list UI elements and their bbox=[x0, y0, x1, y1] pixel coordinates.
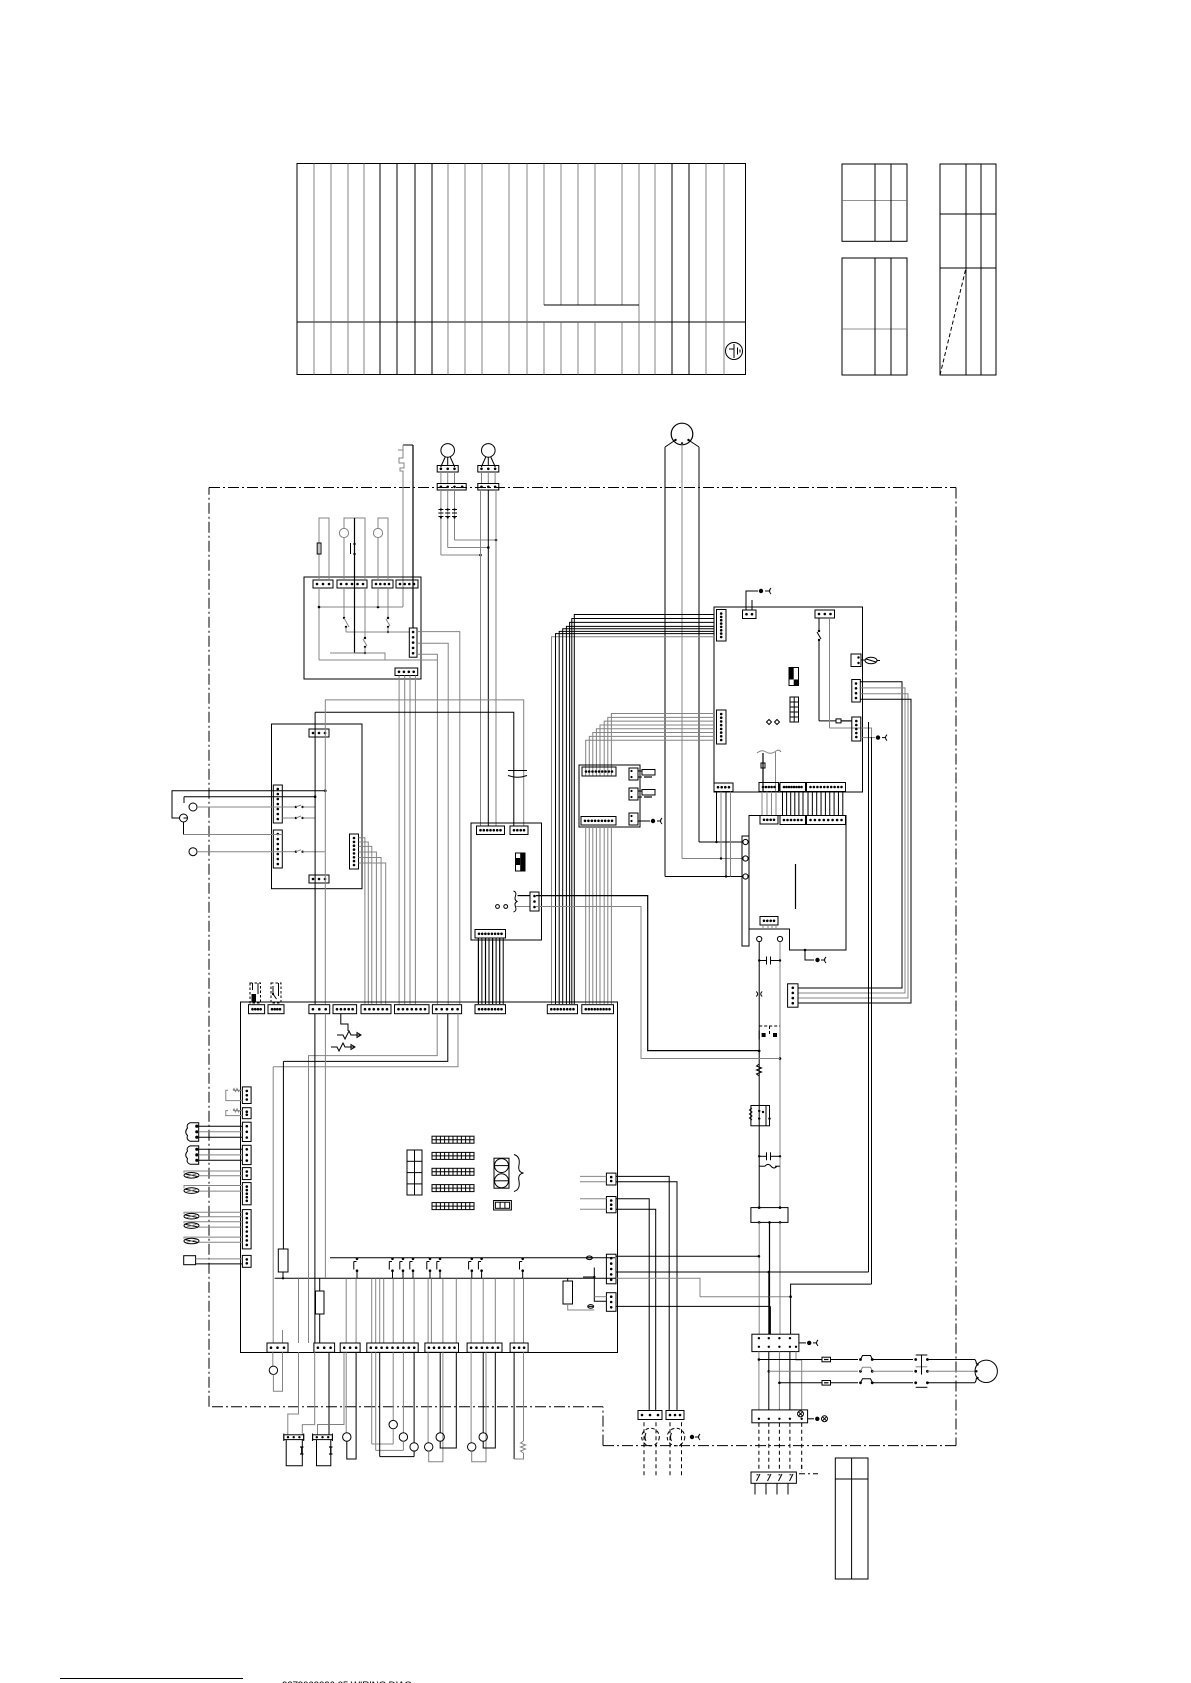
terminal box side connector bbox=[350, 834, 359, 869]
filter PCB connector CN-R3 bbox=[852, 717, 861, 741]
capacitor outline box bbox=[835, 1458, 868, 1579]
main PCB connector CN-S1 bbox=[267, 1343, 288, 1352]
main PCB connector CN-S3 bbox=[340, 1343, 360, 1352]
brace bbox=[514, 1155, 524, 1192]
pressure sensor 3 bbox=[184, 1237, 242, 1244]
internal vertical feeds on left bbox=[273, 1061, 283, 1343]
comm PCB side connector a bbox=[629, 768, 655, 780]
comm PCB side connector c bbox=[629, 813, 662, 825]
wire bus to fan PCB CN2 bbox=[315, 700, 524, 826]
power module connector PM3 bbox=[807, 816, 846, 825]
field terminal strip bbox=[751, 1472, 796, 1495]
main PCB connector CN-L1 bbox=[242, 1087, 251, 1104]
DIP switch block on filter PCB bbox=[789, 668, 799, 686]
terminal block TB2 bbox=[752, 1334, 799, 1351]
junction from fan PCB (gray) bbox=[779, 1057, 782, 1060]
filter PCB connector CN-L2 bbox=[717, 710, 727, 744]
relay connector CN-D bbox=[396, 580, 418, 588]
relay contact S2 bbox=[386, 588, 390, 633]
legend table column lines bbox=[314, 164, 724, 375]
terminal strip TM1 bbox=[273, 785, 282, 823]
defrost heater loop 2 bbox=[226, 1109, 243, 1116]
contactor feed wires bbox=[769, 1271, 872, 1335]
compressor terminal strip bbox=[742, 836, 749, 946]
field terminal L3 bbox=[189, 848, 197, 856]
legend table row divider bbox=[297, 321, 746, 323]
main PCB connector CN-S2 bbox=[314, 1343, 335, 1352]
terminal box connector bottom bbox=[309, 875, 329, 883]
comm PCB top connector bbox=[582, 767, 616, 776]
dashed option plug 2 bbox=[271, 983, 281, 1003]
main PCB connector CN-K2 bbox=[268, 1005, 284, 1014]
main PCB connector CN-L6 bbox=[242, 1183, 251, 1205]
main PCB connector CN-S5 bbox=[425, 1343, 459, 1352]
outdoor fan motor FM bbox=[975, 1360, 997, 1382]
CN-R2 wires to rectifier connector bbox=[798, 682, 911, 1003]
DC link wires bbox=[759, 942, 780, 1208]
small 3-cell block bbox=[494, 1201, 512, 1211]
inline connector on DC+ bbox=[756, 992, 762, 997]
TB2 earth tap bbox=[799, 1340, 818, 1346]
relay unit box bbox=[304, 577, 421, 679]
TB2 to TB3 wires bbox=[759, 1352, 802, 1410]
valve thermistor pair wiring bbox=[288, 1352, 344, 1435]
terminal box internal wires to bus bbox=[282, 789, 326, 853]
DC bus terminal - bbox=[777, 936, 782, 941]
CN-T1 pigtail bbox=[746, 588, 771, 610]
discharge thermistor bbox=[269, 1352, 282, 1391]
wires CN-E to main PCB CN7 bbox=[413, 580, 460, 1004]
dashed option plug 1 bbox=[250, 983, 261, 1003]
inline connector symbols on buses bbox=[586, 1256, 593, 1308]
TB3 earth tap bbox=[808, 1416, 828, 1422]
base heater bbox=[184, 1256, 243, 1265]
dashed relay contact on DC link bbox=[759, 1026, 780, 1040]
wires into CN-L2 from comm PCB bbox=[586, 714, 714, 777]
filter PCB outline bbox=[714, 607, 863, 792]
lamp connector LC2 bbox=[666, 1411, 684, 1420]
relay box bottom connector CN-F bbox=[395, 668, 418, 676]
field terminal L1 bbox=[189, 803, 197, 811]
main control PCB outline bbox=[241, 1002, 618, 1353]
fan motor supply line 1 bbox=[758, 1355, 977, 1364]
lamp connector LC1 bbox=[638, 1411, 662, 1420]
wires CN-F to main PCB CN6 bbox=[399, 676, 415, 1005]
filter PCB connector CN-B3 bbox=[780, 783, 806, 792]
fan PCB wires to main PCB CN8 bbox=[478, 938, 503, 1004]
CN-R3 tap bbox=[861, 735, 887, 741]
main PCB connector CN-L2 bbox=[242, 1108, 251, 1119]
output relay contacts bbox=[354, 1258, 524, 1279]
solenoid valve coil SV1 bbox=[437, 444, 466, 490]
power module earth tap bbox=[804, 949, 826, 963]
title block table C bbox=[940, 164, 996, 375]
comm PCB bottom connector bbox=[581, 817, 616, 826]
main power wires down right side bbox=[869, 722, 872, 1284]
lamp earth tap bbox=[690, 1434, 700, 1440]
boundary stub near terminal strip bbox=[799, 1473, 818, 1475]
filter PCB connector CN-R2 bbox=[852, 680, 861, 703]
strain relief squiggle bbox=[757, 750, 781, 792]
relay box side connector CN-E bbox=[409, 628, 417, 657]
dropper resistor R2 bbox=[316, 1278, 325, 1343]
fan PCB connector CN1 bbox=[477, 826, 505, 835]
relay connector CN-A bbox=[313, 580, 333, 588]
field terminal L2 bbox=[180, 814, 188, 822]
fan PCB test pads bbox=[496, 905, 508, 909]
sensor wire risers bbox=[299, 1278, 524, 1343]
relay loop wires above box bbox=[317, 518, 388, 580]
PM4 wires to DC terminals bbox=[763, 925, 776, 929]
relay array bar 5 bbox=[432, 1203, 474, 1210]
filter PCB connector CN-B1 bbox=[714, 783, 733, 792]
terminal grid block bbox=[407, 1150, 422, 1195]
pressure switch 1 bbox=[184, 1171, 242, 1178]
4-way valve plug 2 bbox=[186, 1146, 243, 1164]
filter PCB connector CN-T2 bbox=[815, 610, 835, 618]
power module connector PM4 bbox=[760, 917, 778, 926]
contactor link bar bbox=[921, 1355, 923, 1375]
fuse wire inside filter PCB bbox=[817, 618, 852, 723]
relay coils K1 K2 bbox=[494, 1158, 509, 1188]
power module connector PM2 bbox=[780, 816, 806, 825]
main PCB connector CN-S4 bbox=[367, 1343, 418, 1352]
contact on black relay wire bbox=[351, 543, 356, 555]
reactor symbol bbox=[759, 1164, 780, 1168]
power module outline bbox=[749, 816, 846, 951]
pressure switch block 1 bbox=[284, 1434, 304, 1466]
main PCB connector CN-S6 bbox=[467, 1343, 502, 1352]
main PCB connector CN-L8 bbox=[242, 1255, 251, 1267]
fan PCB output wires bbox=[536, 896, 780, 1059]
main PCB connector CN-L5 bbox=[242, 1168, 251, 1180]
comm PCB side connector b bbox=[629, 788, 655, 800]
pressure sensor 2 bbox=[184, 1222, 242, 1229]
main PCB connector CN-K3 bbox=[309, 1005, 330, 1014]
main PCB connector CN-R3 bbox=[606, 1254, 616, 1284]
solenoid valve coil SV2 bbox=[478, 444, 499, 490]
fan PCB connector CN3 bbox=[530, 892, 539, 911]
title block table A bbox=[842, 164, 907, 241]
communication PCB outline bbox=[579, 765, 640, 827]
fan PCB connector CN2 bbox=[510, 826, 528, 835]
internal sensor bus verticals bbox=[315, 1014, 326, 1343]
pressure switch 2 bbox=[184, 1186, 242, 1194]
relay box buses bbox=[319, 580, 437, 660]
varistor connector on right edge bbox=[851, 654, 880, 667]
internal link to CN-R4 bbox=[583, 1268, 606, 1302]
wires CN-R4 bbox=[594, 1295, 792, 1334]
wires CN-R3 to contactor chain bbox=[616, 1255, 869, 1297]
wires into CN-L1 from main PCB CN9 bus bbox=[552, 615, 715, 1005]
terminal box field wiring bbox=[172, 791, 282, 852]
footer rule bbox=[60, 1678, 243, 1680]
main PCB connector CN-R4 bbox=[606, 1293, 616, 1312]
relay array bar 4 bbox=[432, 1185, 474, 1192]
main PCB connector CN-L4 bbox=[242, 1145, 251, 1164]
relay contact S3 bbox=[363, 588, 367, 654]
main PCB connector CN-R2 bbox=[606, 1197, 616, 1213]
heat-ex thermistor group 2 bbox=[425, 1352, 457, 1461]
internal wires from CN-K7 to left components bbox=[273, 1014, 458, 1343]
wires CN-R1 to display lamps bbox=[580, 1176, 677, 1410]
test point diamonds bbox=[767, 720, 780, 725]
terminal block TB3 bbox=[752, 1410, 808, 1423]
fan PCB connector CN4 bbox=[475, 930, 506, 939]
wires terminal block to TB2 bbox=[759, 1222, 780, 1334]
relay connector CN-C bbox=[372, 580, 393, 588]
main PCB connector CN-L3 bbox=[242, 1122, 251, 1141]
terminal strip TM2 bbox=[273, 830, 282, 868]
relay array bar 2 bbox=[432, 1152, 474, 1159]
heat-ex thermistor group 1 bbox=[372, 1352, 419, 1456]
brace and output connector bbox=[514, 891, 531, 912]
filter PCB connector CN-T1 bbox=[743, 610, 757, 619]
main PCB connector CN-K10 bbox=[582, 1005, 614, 1014]
wire from CN-T2 to right edge bbox=[830, 618, 872, 737]
CN-B1 wires to compressor terminals bbox=[715, 792, 730, 878]
smoothing capacitor C2 bbox=[758, 1152, 781, 1160]
SV1 lead wires with inline connectors bbox=[438, 490, 497, 556]
indicator lamp 2 bbox=[667, 1422, 685, 1478]
unit boundary dash-dot border bbox=[209, 488, 956, 1446]
4-way valve plug 1 bbox=[186, 1123, 243, 1141]
wires CN-R2 to display lamps bbox=[580, 1199, 656, 1410]
pressure sensor 1 bbox=[184, 1212, 242, 1219]
inline capacitor on fan PCB feed bbox=[508, 771, 527, 778]
DC link capacitor C1 bbox=[758, 957, 781, 965]
compressor leads to power terminals bbox=[665, 842, 742, 877]
internal bus line 2 bbox=[275, 1277, 616, 1279]
jumper arrows under CN-K4 bbox=[331, 1014, 361, 1051]
heat-ex thermistor group 3 bbox=[468, 1352, 496, 1461]
rectifier connector CN-RT bbox=[788, 984, 798, 1007]
compressor motor CM bbox=[665, 423, 699, 876]
filter PCB connector CN-B2 bbox=[759, 783, 779, 792]
legend table frame bbox=[297, 164, 746, 375]
PTC thermistor squiggle bbox=[757, 1064, 762, 1076]
DC bus terminal + bbox=[757, 936, 762, 941]
main relay block bbox=[750, 1106, 771, 1126]
SV2 lead wires bbox=[481, 490, 497, 826]
fan-out wires to main PCB CN5 bbox=[359, 838, 386, 1004]
field wiring dashed leads bbox=[759, 1423, 802, 1472]
main PCB connector CN-K5 bbox=[361, 1005, 391, 1014]
fan motor supply line 3 bbox=[778, 1378, 976, 1387]
terminal box connector top bbox=[309, 729, 329, 737]
wire to relay box (black) bbox=[412, 445, 414, 580]
DC terminal block bbox=[751, 1206, 788, 1223]
main PCB connector CN-K4 bbox=[333, 1005, 357, 1014]
CN-B2..B4 wires to power module bbox=[762, 792, 843, 816]
heatsink bar bbox=[795, 864, 797, 909]
main PCB connector CN-K6 bbox=[395, 1005, 430, 1014]
relay array bar 1 bbox=[432, 1136, 474, 1143]
title block table B bbox=[842, 258, 907, 375]
relay connector CN-B bbox=[337, 580, 367, 588]
pressure switch block 2 bbox=[313, 1434, 333, 1466]
internal bus line bbox=[330, 1257, 615, 1259]
relay contact S1 bbox=[343, 588, 349, 632]
fan motor PCB outline bbox=[471, 823, 542, 940]
terminal box bbox=[272, 724, 363, 889]
defrost heater loop 1 bbox=[226, 1089, 243, 1101]
main PCB connector CN-S7 bbox=[510, 1343, 528, 1352]
crankcase heater loop bbox=[514, 1352, 525, 1459]
indicator lamp 1 bbox=[642, 1422, 660, 1478]
filter PCB connector CN-B4 bbox=[807, 783, 846, 792]
main PCB connector CN-K1 bbox=[249, 1005, 265, 1014]
fan motor supply line 2 bbox=[768, 1367, 976, 1373]
relay box internal wiring bbox=[318, 588, 403, 660]
junction from fan PCB (black) bbox=[758, 1050, 761, 1053]
comm PCB wires to main PCB CN10 bbox=[586, 825, 612, 1004]
main PCB connector CN-K8 bbox=[475, 1005, 506, 1014]
main PCB connector CN-R1 bbox=[606, 1173, 616, 1185]
DIP switch on fan PCB bbox=[516, 853, 526, 871]
outdoor thermistor TH1 bbox=[343, 1352, 357, 1459]
ground symbol in legend bbox=[726, 343, 743, 360]
power module connector PM1 bbox=[760, 816, 778, 825]
main PCB connector CN-K7 bbox=[432, 1005, 461, 1014]
dropper resistor R1 bbox=[278, 1249, 288, 1280]
dropper resistor R3 bbox=[563, 1278, 594, 1310]
filter PCB connector CN-L1 bbox=[717, 610, 727, 642]
crankcase heater wire with thermal fuse bbox=[398, 445, 413, 607]
power bus wires down to main PCB CN3 bbox=[315, 700, 325, 1004]
relay array bar 3 bbox=[432, 1168, 474, 1175]
main PCB connector CN-K9 bbox=[547, 1005, 577, 1014]
main PCB connector CN-L7 bbox=[242, 1210, 251, 1249]
jumper grid on filter PCB bbox=[790, 697, 799, 722]
